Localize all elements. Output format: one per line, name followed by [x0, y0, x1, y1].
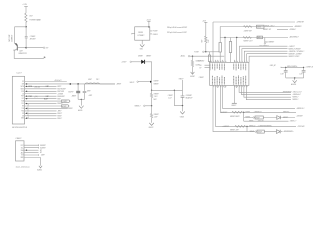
- svg-text:MW?: MW?: [57, 98, 61, 100]
- wire pin9: [25, 100, 62, 102]
- off-page arrow: [43, 57, 45, 59]
- svg-text:M8W? M+: M8W? M+: [283, 112, 290, 114]
- svg-text:MW8?: MW8?: [68, 108, 72, 110]
- svg-text:M?: M?: [40, 150, 42, 152]
- svg-text:D8W8?: D8W8?: [138, 56, 143, 58]
- U1 junction dots: [26, 83, 27, 119]
- svg-text:1u8?: 1u8?: [299, 73, 302, 75]
- power +5V input: [121, 61, 141, 64]
- resistor R7: [208, 52, 210, 63]
- svg-text:M?: M?: [40, 152, 42, 154]
- svg-text:MB?: MB?: [154, 99, 157, 101]
- svg-text:CMMBT2222: CMMBT2222: [18, 53, 27, 55]
- ground GND: [180, 112, 185, 119]
- resistor R3: [150, 106, 158, 119]
- wire: [182, 106, 184, 112]
- svg-text:+MW8?: +MW8?: [116, 84, 121, 86]
- svg-text:+5V18?: +5V18?: [121, 62, 126, 64]
- svg-text:TX0: TX0: [22, 108, 25, 110]
- svg-text:M8W8? 1.1K?: M8W8? 1.1K?: [244, 40, 253, 42]
- svg-text:-MBM?: -MBM?: [71, 96, 76, 98]
- capacitor C4: [168, 90, 193, 105]
- svg-text:7.4K?: 7.4K?: [154, 96, 158, 98]
- rail4 series text: [243, 37, 251, 39]
- rail4 resistor box: [257, 36, 263, 39]
- node M junction: [224, 37, 225, 38]
- pin circle: [253, 117, 254, 118]
- svg-text:M8W8+? D/W8-M?: M8W8+? D/W8-M?: [289, 48, 301, 50]
- U1 pin names inside: [21, 81, 25, 120]
- svg-text:+3V/MW: +3V/MW: [57, 93, 63, 95]
- svg-text:GND8: GND8: [180, 116, 184, 118]
- svg-text:+M8W/M8W8?: +M8W/M8W8?: [282, 92, 292, 94]
- oscillator U2 body: [135, 27, 150, 40]
- wire: [78, 98, 84, 100]
- node H junction: [174, 90, 175, 91]
- wire pin16: [25, 117, 57, 119]
- wire: [145, 62, 152, 81]
- wire: [15, 27, 26, 44]
- svg-text:_3v3_sck: _3v3_sck: [33, 86, 40, 88]
- power +3v3 pullup: [202, 20, 207, 36]
- fan wire e: [249, 56, 287, 62]
- wire: [151, 98, 153, 106]
- svg-text:+M8W/D8+?: +M8W/D8+?: [296, 108, 304, 110]
- wire drop: [243, 112, 245, 121]
- svg-text:C8W8: C8W8: [138, 32, 143, 34]
- svg-text:M8W8-q?: M8W8-q?: [249, 126, 255, 128]
- rail2 label box: [257, 25, 265, 28]
- svg-text:L8W?: L8W?: [88, 79, 92, 81]
- svg-text:+M8?: +M8?: [88, 95, 92, 97]
- svg-text:R8W8?: R8W8?: [154, 94, 159, 96]
- U1 outside pin tags: [27, 105, 29, 119]
- node G junction: [151, 90, 152, 91]
- U3 pin wires: [24, 144, 46, 165]
- svg-text:+L-M8W8?: +L-M8W8?: [222, 126, 229, 128]
- net PU pin: [194, 51, 219, 53]
- wire: [24, 152, 39, 154]
- svg-text:M8W8: M8W8: [249, 121, 253, 123]
- capacitor C6: [299, 67, 305, 78]
- svg-text:PCM8?: PCM8?: [153, 31, 158, 33]
- net flag: [62, 105, 70, 107]
- bus rail 4: [220, 37, 288, 39]
- wire: [100, 83, 115, 85]
- net B1 pin: [180, 55, 224, 57]
- U1 pin stubs and bus wires: [25, 80, 115, 120]
- wire: [80, 99, 82, 105]
- fan wire b: [242, 49, 288, 63]
- wire: [26, 47, 43, 49]
- ground AGND: [78, 106, 84, 112]
- U4 left pins: [205, 65, 210, 67]
- wire: [205, 43, 207, 52]
- svg-text:1-SMB?: 1-SMB?: [62, 101, 67, 103]
- svg-text:8MW/D? D7W8?: 8MW/D? D7W8?: [289, 56, 300, 58]
- node K junction: [205, 51, 206, 52]
- riser wire: [212, 22, 214, 62]
- svg-text:+1JM8W8.2?: +1JM8W8.2?: [253, 112, 262, 114]
- svg-text:-MW?: -MW?: [41, 155, 45, 157]
- fan wire m row5: [213, 85, 283, 131]
- svg-text:C23HB?: C23HB?: [30, 36, 36, 38]
- svg-text:C/D8W8?: C/D8W8?: [186, 95, 192, 97]
- wire pin6: [25, 93, 57, 95]
- resistor R2: [150, 90, 158, 98]
- wire pin3 MOSI: [25, 85, 57, 87]
- svg-text:+D/W-18?: +D/W-18?: [257, 121, 264, 123]
- svg-text:1.18?: 1.18?: [280, 73, 284, 75]
- svg-text:HNL8?: HNL8?: [130, 82, 135, 84]
- U4 pin numbers: [211, 61, 248, 87]
- svg-text:MWb?: MWb?: [57, 116, 61, 118]
- node D junction: [77, 83, 79, 85]
- resistor R6: [191, 56, 200, 68]
- svg-text:+MW8? 1W?: +MW8? 1W?: [244, 30, 253, 32]
- ground GND: [149, 123, 154, 129]
- svg-text:P8W?: P8W?: [256, 117, 260, 119]
- net label vertical text: [8, 34, 14, 42]
- svg-text:MOSI: MOSI: [28, 86, 32, 88]
- svg-text:BL-K?: BL-K?: [44, 98, 48, 100]
- svg-text:PU#B?: PU#B?: [194, 51, 199, 53]
- net flag: [62, 100, 71, 102]
- node P junction: [285, 67, 286, 68]
- svg-text:M8W/D8? +D/W8M?: M8W/D8? +D/W8M?: [289, 53, 302, 55]
- svg-text:SCK: SCK: [21, 91, 24, 93]
- svg-text:M8?: M8?: [258, 37, 261, 39]
- resistor R5: [202, 36, 210, 43]
- svg-text:GND8?: GND8?: [190, 76, 195, 78]
- diode D2 node arrow: [150, 80, 159, 85]
- fan wire c: [244, 51, 287, 62]
- wire pin15: [25, 115, 57, 117]
- svg-text:BC/P8?: BC/P8?: [68, 92, 73, 94]
- node F junction: [148, 26, 150, 28]
- inductor L1: [85, 79, 99, 84]
- wire corner to pin: [264, 38, 266, 43]
- svg-text:R8?: R8?: [202, 40, 204, 43]
- rail3 short: [277, 29, 288, 31]
- svg-text:3V3: 3V3: [22, 84, 25, 86]
- svg-text:_(-1-): _(-1-): [33, 96, 38, 98]
- diode D3: [277, 116, 281, 120]
- U2 bottom stub: [141, 40, 143, 44]
- bus rail 1: [213, 21, 295, 23]
- wire: [286, 78, 304, 80]
- node L junction: [192, 56, 193, 57]
- svg-text:DB?: DB?: [46, 86, 49, 88]
- wire: [24, 147, 39, 149]
- svg-text:+M8W_1?: +M8W_1?: [290, 121, 297, 123]
- U4 bottom pin names: [212, 76, 245, 85]
- IC U4 body: [210, 62, 249, 85]
- svg-text:+2/WM8+?: +2/WM8+?: [289, 29, 296, 31]
- ground GND bar: [231, 103, 237, 107]
- svg-text:M8W8+?: M8W8+?: [293, 97, 299, 99]
- resistor R8: [219, 43, 221, 53]
- svg-text:RX0: RX0: [21, 110, 24, 112]
- U4 top pin stubs: [211, 60, 235, 63]
- svg-text:+2/WM8 M?: +2/WM8 M?: [296, 22, 304, 24]
- svg-text:+C/WM?_M: +C/WM?_M: [305, 67, 313, 69]
- riser wire: [236, 38, 238, 63]
- wire pin14: [25, 112, 57, 114]
- net input M1: [135, 99, 157, 107]
- wire: [25, 38, 27, 48]
- wire pin11: [25, 105, 62, 107]
- svg-text:2.2u?: 2.2u?: [168, 98, 172, 100]
- node C junction: [70, 83, 72, 85]
- svg-text:B?: B?: [200, 67, 202, 69]
- svg-text:MW?-MW: MW?-MW: [57, 91, 64, 93]
- svg-text:M8W8+?: M8W8+?: [135, 105, 141, 107]
- svg-text:MW-2?: MW-2?: [57, 113, 62, 115]
- row1 texts: [221, 111, 290, 114]
- wire: [24, 154, 39, 156]
- svg-text:M8W8? -2W?: M8W8? -2W?: [230, 130, 239, 132]
- svg-text:AT-STEGGS-PPU8: AT-STEGGS-PPU8: [12, 126, 27, 129]
- resistor R4 vertical feed: [179, 78, 184, 90]
- svg-text:(Cam_1-Server-ic): (Cam_1-Server-ic): [16, 166, 30, 169]
- svg-text:+M8W8/M?: +M8W8/M?: [294, 26, 302, 28]
- wire pin1: [25, 81, 67, 83]
- svg-text:HOM?: HOM?: [62, 106, 66, 108]
- svg-text:M8W8+?: M8W8+?: [293, 99, 299, 101]
- fan wire d: [247, 54, 288, 63]
- riser wire: [230, 38, 232, 42]
- capacitor C2: [68, 84, 80, 99]
- row5 label box: [257, 130, 264, 133]
- node N junction: [236, 37, 237, 38]
- wire: [24, 144, 39, 146]
- svg-text:M8W+W-M8W+: M8W+W-M8W+: [287, 66, 297, 68]
- node J junction: [182, 105, 183, 106]
- svg-text:M8W8-: M8W8-: [246, 112, 251, 114]
- svg-text:D8W8?: D8W8?: [154, 80, 159, 82]
- wire pin8: [25, 98, 57, 100]
- ground AGND arrow: [37, 166, 43, 172]
- U4 bottom pin stubs: [218, 85, 237, 88]
- fan wire l row4: [216, 85, 297, 126]
- wire: [24, 158, 41, 166]
- svg-text:MW-L?: MW-L?: [57, 118, 62, 120]
- svg-text:+M8W8/M8W8+: +M8W8/M8W8+: [283, 131, 294, 133]
- resistor R9: [229, 42, 231, 53]
- IC U1 body: [12, 76, 24, 124]
- wire branch: [152, 89, 183, 91]
- fan wire j row0: [223, 85, 295, 108]
- svg-text:SD/MW?: SD/MW?: [40, 145, 46, 147]
- wire pin13: [25, 110, 57, 112]
- svg-text:PRST: PRST: [28, 96, 32, 98]
- svg-text:MBR8?: MBR8?: [146, 56, 151, 58]
- riser wire: [224, 38, 226, 63]
- wire: [151, 81, 153, 91]
- svg-text:C86S?: C86S?: [15, 138, 22, 140]
- wire emitter: [14, 51, 43, 59]
- ground stem: [233, 85, 235, 103]
- wire: [25, 22, 27, 27]
- svg-text:M8M8?: M8M8?: [154, 83, 159, 85]
- svg-text:+M8-mw-mw?: +M8-mw-mw?: [293, 92, 302, 94]
- fan wire k row1: [220, 85, 296, 112]
- node S junction: [243, 112, 244, 113]
- ground AGND right: [291, 80, 297, 86]
- fan wire i: [246, 85, 291, 99]
- svg-text:E: E: [131, 33, 132, 35]
- U2 left pin: [131, 33, 135, 35]
- svg-text:M8W?: M8W?: [258, 131, 262, 133]
- transistor Q1: [14, 43, 27, 55]
- node A junction: [25, 26, 27, 28]
- svg-text:IO2: IO2: [22, 113, 24, 115]
- net GMD_B: [270, 65, 314, 69]
- svg-text:78L?: 78L?: [96, 79, 99, 81]
- svg-text:R8W8?: R8W8?: [154, 114, 159, 116]
- capacitor C1: [25, 36, 36, 41]
- U4 top pin names: [210, 64, 246, 71]
- IC U3 body: [16, 141, 25, 161]
- wire: [25, 27, 27, 36]
- node I junction: [151, 105, 152, 106]
- wire drop: [246, 126, 248, 131]
- node Q junction: [303, 67, 304, 68]
- fan wire a: [240, 46, 288, 62]
- node T junction: [246, 126, 247, 127]
- bus rail 2: [220, 26, 293, 28]
- svg-text:LPXMB?: LPXMB?: [137, 35, 144, 37]
- node R junction: [294, 77, 295, 78]
- svg-text:GMD_B?: GMD_B?: [270, 65, 276, 67]
- power +3.3V: [22, 4, 27, 13]
- svg-text:INT: INT: [21, 155, 23, 157]
- wire pin12: [25, 107, 68, 109]
- row3 wire: [244, 120, 289, 122]
- svg-text:RST: RST: [21, 96, 24, 98]
- wire L-branch: [174, 90, 182, 105]
- wire pin7 PRST: [25, 95, 57, 97]
- svg-text:-MW?: -MW?: [57, 111, 61, 113]
- U3 pin names inside: [20, 145, 24, 159]
- node B junction: [25, 47, 27, 49]
- row2 wire: [244, 117, 295, 119]
- wire pin4: [25, 88, 57, 90]
- svg-text:S-MW8?: S-MW8?: [40, 147, 46, 149]
- svg-text:+D8/D48?: +D8/D48?: [296, 116, 303, 118]
- pin circle C8D: [259, 43, 269, 48]
- fan wire f: [239, 85, 291, 92]
- row2 label box: [255, 116, 263, 119]
- diode D4: [277, 130, 281, 134]
- svg-text:E8: E8: [200, 65, 202, 67]
- capacitor C5: [280, 67, 287, 78]
- svg-text:GND8?: GND8?: [231, 105, 236, 107]
- svg-text:MW8-MW?: MW8-MW?: [57, 96, 64, 98]
- svg-text:M/DTR-MW?: M/DTR-MW?: [57, 89, 66, 91]
- svg-text:M8W8? M8W?: M8W8? M8W?: [230, 116, 240, 118]
- wire: [24, 149, 39, 151]
- fan labels right: [282, 92, 302, 102]
- svg-text:1.18?: 1.18?: [154, 116, 158, 118]
- svg-text:Cam?: Cam?: [16, 73, 22, 75]
- svg-text:IO4: IO4: [22, 115, 24, 117]
- svg-text:SCL: SCL: [21, 147, 24, 149]
- svg-text:M8W8?: M8W8?: [283, 117, 288, 119]
- wire: [151, 119, 153, 123]
- node HNL input: [130, 81, 151, 84]
- svg-text:bq8-?-M8W8?: bq8-?-M8W8?: [265, 41, 274, 43]
- ground GND osc: [140, 45, 145, 51]
- fan labels: [289, 45, 305, 58]
- diode D1: [138, 56, 151, 64]
- fan wire h: [244, 85, 291, 97]
- wire base: [17, 47, 26, 49]
- svg-text:M8W8+, 8W+?: M8W8+, 8W+?: [265, 25, 275, 27]
- ground arrow: [190, 69, 195, 79]
- svg-text:nR?: nR?: [46, 47, 49, 49]
- svg-text:GND8?: GND8?: [149, 127, 154, 129]
- svg-text:SCL: SCL: [21, 103, 24, 105]
- svg-text:M8W8: M8W8: [250, 131, 254, 133]
- svg-text:DB?: DB?: [46, 96, 49, 98]
- power +3v3 osc: [146, 20, 150, 27]
- wire: [219, 52, 221, 62]
- svg-text:+B(1)8+: +B(1)8+: [180, 56, 185, 58]
- U2 right pins: [150, 31, 158, 36]
- fan wire g: [242, 85, 292, 94]
- svg-text:OEM#8: OEM#8: [153, 34, 158, 36]
- pin connector circle: [43, 47, 48, 49]
- wire pin2 (to LC filter): [25, 83, 115, 85]
- riser wire: [219, 27, 221, 43]
- rail2 series text: [244, 26, 252, 28]
- capacitor C3: [83, 84, 93, 99]
- node E junction: [81, 99, 82, 100]
- wire: [230, 53, 232, 63]
- svg-text:MW8: MW8: [257, 27, 261, 29]
- svg-text:+C8W8#: +C8W8#: [198, 61, 204, 63]
- svg-text:M8W8?~W?: M8W8?~W?: [263, 29, 271, 31]
- svg-text:+M8W/D8+? D7W8/M+?: +M8W/D8+? D7W8/M+?: [289, 51, 305, 53]
- wire pin5: [25, 90, 57, 92]
- svg-text:1W8?: 1W8?: [87, 90, 91, 92]
- resistor R1: [25, 13, 41, 22]
- pin circle: [255, 131, 256, 132]
- svg-text:C8W8?: C8W8?: [199, 77, 204, 79]
- wire pin10: [25, 103, 57, 105]
- svg-text:+3V3-2-uF?: +3V3-2-uF?: [54, 80, 62, 82]
- row4 texts: [222, 125, 305, 128]
- svg-text:C8W8?: C8W8?: [168, 95, 173, 97]
- svg-text:INT: INT: [22, 106, 24, 108]
- svg-text:M8W8-: M8W8-: [246, 117, 251, 119]
- svg-text:CS: CS: [22, 93, 24, 95]
- svg-text:AGND: AGND: [37, 169, 43, 172]
- svg-text:+M8W/m8+?: +M8W/m8+?: [293, 94, 301, 96]
- svg-text:Q2X?: Q2X?: [19, 51, 23, 53]
- svg-text:1K0?: 1K0?: [29, 15, 33, 17]
